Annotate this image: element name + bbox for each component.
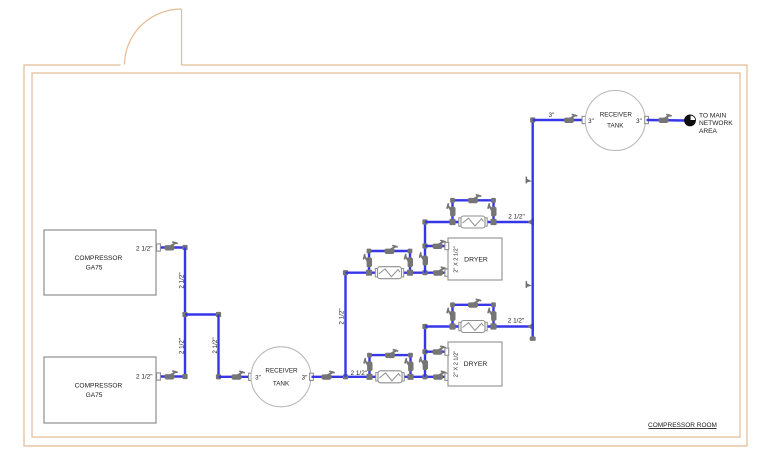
filter F4 body: [459, 321, 487, 333]
nozzle flange CP1: [157, 244, 161, 251]
pipe: drop leg (vertical): [217, 315, 219, 377]
svg-text:2 1/2": 2 1/2": [508, 213, 524, 220]
receiver tank T1: [251, 347, 311, 407]
valve F1 outlet riser: [405, 359, 413, 372]
elbow at F1 bypass top-left: [367, 353, 372, 358]
end cap / drain at header bottom: [530, 337, 536, 341]
filter F2 body: [375, 267, 403, 279]
svg-text:2 1/2": 2 1/2": [136, 374, 152, 381]
door swing arc: [125, 9, 182, 65]
svg-text:DRYER: DRYER: [464, 256, 488, 263]
valve D1 outlet stub: [433, 241, 446, 249]
valve F4 inlet riser: [447, 308, 455, 321]
svg-text:TANK: TANK: [607, 123, 624, 130]
valve before T1 inlet: [232, 371, 245, 379]
label RECEIVER TANK (T2): [600, 111, 633, 129]
valve F4 bypass: [468, 299, 481, 307]
filter F3 body: [459, 216, 487, 228]
elbow at upper branch corner: [343, 270, 348, 275]
compressor CP2 box: [44, 357, 156, 423]
valve after T1: [322, 371, 335, 379]
filter F1 body: [376, 371, 404, 383]
elbow at F2 bypass top-right: [408, 249, 413, 254]
elbow at D2 outlet top corner: [422, 324, 427, 329]
door leaf: [181, 9, 183, 65]
valve D1 bypass: [420, 253, 428, 266]
pipe: main header (vertical): [532, 120, 534, 339]
compressor CP1 box: [44, 230, 156, 295]
svg-text:NETWORK: NETWORK: [699, 120, 733, 127]
svg-text:GA75: GA75: [86, 392, 103, 399]
wall: inner room outline: [32, 73, 740, 437]
valve at upper dryer inlet stub: [433, 267, 446, 275]
elbow at drop leg bottom: [216, 374, 221, 379]
tee: D2 outlet stub: [422, 349, 427, 354]
valve CP2 outlet: [165, 371, 178, 379]
nozzle flange D1 outlet: [445, 242, 449, 249]
valve F1 bypass: [385, 350, 398, 358]
svg-text:3": 3": [588, 118, 594, 125]
valve F3 bypass: [468, 195, 481, 203]
valve at lower dryer inlet stub: [433, 371, 446, 379]
elbow at header top corner: [530, 117, 535, 122]
flow mark on header (upper): [526, 177, 532, 184]
elbow at F2 bypass top-left: [367, 249, 372, 254]
pipe: T1 east to lower dryer branch: [312, 376, 449, 378]
elbow at F3 bypass top-left: [450, 198, 455, 203]
svg-text:TANK: TANK: [273, 381, 290, 388]
tee at F3 inlet: [449, 219, 455, 225]
pipe: upper branch to dryer D1: [346, 272, 449, 274]
label COMPRESSOR GA75 (CP2): [75, 383, 123, 399]
pipe: F3 bypass loop: [453, 200, 494, 222]
pipe: D2 bypass vertical: [424, 327, 426, 377]
nozzle flange dryer D2 inlet: [445, 373, 449, 380]
svg-text:2 1/2": 2 1/2": [212, 337, 219, 353]
connection symbol: to main network: [684, 115, 696, 127]
pipe: D2 outlet line to main header: [425, 325, 533, 327]
svg-text:2 1/2": 2 1/2": [179, 272, 186, 288]
tee at F1 outlet: [407, 374, 413, 380]
tee at F3 outlet: [490, 219, 496, 225]
pipe: manifold to drop leg: [185, 313, 219, 315]
svg-text:2 1/2": 2 1/2": [351, 370, 367, 377]
elbow CP1 corner: [182, 245, 187, 250]
tee: riser takeoff on main line: [343, 374, 348, 379]
nozzle flange T2 east: [645, 116, 649, 123]
svg-text:AREA: AREA: [699, 128, 718, 135]
elbow at F3 bypass top-right: [491, 198, 496, 203]
svg-text:COMPRESSOR ROOM: COMPRESSOR ROOM: [648, 422, 717, 429]
elbow CP2 corner: [182, 374, 187, 379]
valve D2 outlet stub: [433, 346, 446, 354]
valve F3 inlet riser: [447, 204, 455, 217]
nozzle flange T1 west: [249, 373, 253, 380]
tee at F2 outlet: [407, 270, 413, 276]
pipe: T2 east to main network: [647, 119, 685, 122]
valve F2 inlet riser: [364, 255, 372, 268]
flow mark on header (lower): [526, 281, 532, 288]
valve before T2 inlet: [564, 115, 577, 123]
tee at F4 inlet: [449, 323, 455, 329]
svg-text:GA75: GA75: [86, 264, 103, 271]
dryer D2 box: [448, 342, 502, 386]
svg-text:3": 3": [302, 374, 308, 381]
nozzle flange D2 outlet: [445, 348, 449, 355]
pipe: D1 bypass vertical: [424, 222, 426, 273]
svg-text:3": 3": [636, 118, 642, 125]
svg-text:2" X 2 1/2": 2" X 2 1/2": [454, 351, 460, 377]
pipe: D1 outlet line to main header: [425, 221, 533, 223]
pipe: drop leg to receiver tank T1: [219, 376, 253, 378]
valve F2 outlet riser: [405, 255, 413, 268]
valve after T2: [659, 115, 672, 123]
label RECEIVER TANK (T1): [265, 367, 298, 387]
svg-text:COMPRESSOR: COMPRESSOR: [75, 255, 123, 262]
reducer wedge into header (upper): [528, 218, 535, 227]
elbow at D1 outlet top corner: [422, 219, 427, 224]
wall: outer room outline: [24, 65, 747, 446]
elbow at F4 bypass top-right: [491, 302, 496, 307]
tee: lower dryer bypass bottom: [422, 374, 427, 379]
reducer wedge into header (lower): [528, 322, 535, 331]
nozzle flange T2 west: [582, 116, 586, 123]
svg-text:2 1/2": 2 1/2": [179, 338, 186, 354]
svg-text:TO MAIN: TO MAIN: [699, 113, 727, 120]
elbow at F4 bypass top-left: [450, 302, 455, 307]
tee: manifold junction: [182, 312, 187, 317]
pipe: D1 outlet stub: [425, 245, 448, 247]
valve D2 bypass: [420, 357, 428, 370]
svg-text:3": 3": [255, 374, 261, 381]
pipe: D2 outlet stub: [425, 351, 448, 353]
svg-text:2 1/2": 2 1/2": [508, 318, 524, 325]
tee at F4 outlet: [490, 323, 496, 329]
dryer D1 box: [448, 238, 502, 280]
pipe: F2 bypass loop: [369, 251, 410, 273]
label COMPRESSOR ROOM (underlined): [648, 422, 717, 429]
pipe: CP2 outlet to manifold riser: [157, 375, 185, 377]
nozzle flange dryer D1 inlet: [445, 269, 449, 276]
nozzle flange T1 east: [310, 373, 314, 380]
pipe: F1 bypass loop: [370, 355, 411, 377]
valve F3 outlet riser: [488, 204, 496, 217]
valve F1 inlet riser: [364, 359, 372, 372]
svg-text:2 1/2": 2 1/2": [339, 308, 346, 324]
svg-text:COMPRESSOR: COMPRESSOR: [75, 383, 123, 390]
valve F4 outlet riser: [488, 308, 496, 321]
pipe: header to receiver tank T2: [533, 119, 585, 121]
svg-text:RECEIVER: RECEIVER: [600, 111, 633, 118]
svg-text:3": 3": [549, 112, 555, 119]
nozzle flange CP2: [157, 373, 161, 380]
elbow at F1 bypass top-right: [408, 353, 413, 358]
svg-text:RECEIVER: RECEIVER: [265, 367, 298, 374]
valve F2 bypass: [385, 246, 398, 254]
pipe: F4 bypass loop: [453, 305, 494, 327]
valve CP1 outlet: [165, 242, 178, 250]
label COMPRESSOR GA75 (CP1): [75, 255, 123, 271]
receiver tank T2: [585, 91, 645, 151]
pipe: CP1 outlet to manifold riser: [157, 246, 185, 248]
pipe: manifold riser (vertical): [184, 248, 186, 377]
elbow at drop leg top: [216, 312, 221, 317]
svg-text:2" X 2 1/2": 2" X 2 1/2": [454, 246, 460, 272]
tee at F2 inlet: [366, 270, 372, 276]
label TO MAIN NETWORK AREA: [699, 113, 733, 135]
tee: D1 outlet stub: [422, 243, 427, 248]
tee at F1 inlet: [366, 374, 372, 380]
svg-text:DRYER: DRYER: [464, 361, 488, 368]
pipe: riser to upper dryer branch: [344, 273, 346, 377]
tee: upper dryer bypass bottom: [422, 270, 427, 275]
svg-text:2 1/2": 2 1/2": [136, 245, 152, 252]
